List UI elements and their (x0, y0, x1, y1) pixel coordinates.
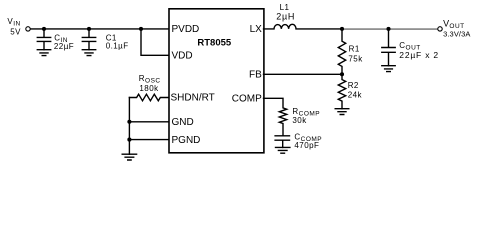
svg-text:2µH: 2µH (276, 12, 295, 22)
svg-text:75k: 75k (348, 54, 363, 63)
svg-text:R1: R1 (349, 45, 360, 54)
svg-text:22µF x 2: 22µF x 2 (399, 50, 439, 60)
svg-text:SHDN/RT: SHDN/RT (171, 92, 215, 103)
svg-text:3.3V/3A: 3.3V/3A (443, 30, 470, 39)
svg-text:22µF: 22µF (54, 42, 74, 51)
svg-text:180k: 180k (139, 84, 159, 93)
svg-text:RT8055: RT8055 (197, 38, 232, 49)
svg-text:GND: GND (172, 117, 194, 128)
svg-text:24k: 24k (348, 90, 363, 99)
svg-text:COMP: COMP (232, 94, 262, 105)
svg-text:0.1µF: 0.1µF (106, 41, 129, 50)
svg-text:R2: R2 (348, 81, 359, 90)
svg-text:FB: FB (249, 70, 262, 81)
svg-text:LX: LX (250, 24, 263, 35)
svg-text:30k: 30k (292, 116, 307, 125)
svg-text:VDD: VDD (172, 51, 193, 62)
svg-text:470pF: 470pF (294, 141, 319, 150)
svg-text:PGND: PGND (172, 135, 201, 146)
svg-text:5V: 5V (10, 27, 21, 36)
svg-text:PVDD: PVDD (172, 24, 200, 35)
